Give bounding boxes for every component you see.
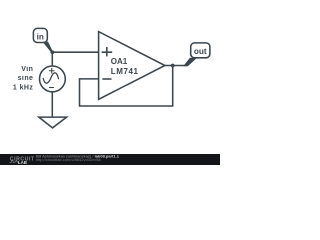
watermark bar xyxy=(0,153,220,165)
svg-text:1 kHz: 1 kHz xyxy=(13,84,34,91)
flag out box xyxy=(191,43,210,58)
svg-text:LAB: LAB xyxy=(18,160,27,165)
op-amp OA1 (LM741) xyxy=(99,32,165,100)
wire: op-amp output to node OUT xyxy=(165,65,186,67)
flag in pointer xyxy=(43,42,53,54)
svg-text:LM741: LM741 xyxy=(111,67,139,76)
svg-text:in: in xyxy=(37,33,44,42)
op-amp inverting input - mark xyxy=(102,78,111,80)
V1 + polarity mark xyxy=(49,68,55,74)
V1 body circle xyxy=(40,66,66,92)
op-amp non-inverting input + mark xyxy=(102,47,113,56)
op-amp triangle body xyxy=(99,32,165,100)
wire: node IN down to V1 top terminal xyxy=(51,52,53,66)
flag out (net label "out") xyxy=(183,43,210,66)
V1 - polarity mark xyxy=(49,87,54,89)
flag in box xyxy=(33,28,47,42)
svg-text:sine: sine xyxy=(18,75,34,82)
wire: V1 bottom terminal down to ground xyxy=(51,92,53,118)
node A: input junction xyxy=(51,50,55,54)
voltage source V1 (Vin, sine, 1 kHz) xyxy=(40,66,66,92)
svg-text:Vin: Vin xyxy=(21,66,33,73)
V1 sine waveform glyph xyxy=(43,73,59,83)
value label: Vin sine 1 kHz xyxy=(13,66,34,91)
svg-text:out: out xyxy=(194,47,207,56)
ground xyxy=(39,117,67,128)
wire: node IN to op-amp non-inverting input xyxy=(52,51,98,53)
flag in (net label "in") xyxy=(33,28,53,53)
svg-text:OA1: OA1 xyxy=(111,57,128,66)
wire: feedback loop from op-amp inverting input to output node xyxy=(80,66,173,107)
svg-text:http://circuitlab.com/c/8842vd: http://circuitlab.com/c/8842vd32mf6k xyxy=(36,157,101,162)
flag out pointer xyxy=(183,58,196,67)
node B: output junction xyxy=(171,64,175,68)
